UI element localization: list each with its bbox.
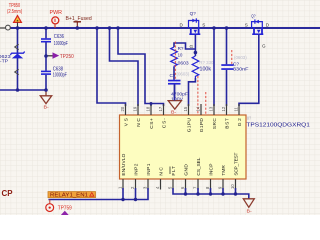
svg-text:INP1: INP1 — [146, 163, 152, 175]
svg-text:S: S — [245, 23, 248, 28]
svg-text:R? 330: R? 330 — [199, 60, 214, 65]
svg-text:C636: C636 — [54, 34, 64, 40]
svg-text:SRC: SRC — [212, 118, 218, 130]
svg-text:TP759: TP759 — [58, 206, 72, 212]
svg-text:(0603): (0603) — [234, 55, 247, 60]
svg-text:18: 18 — [146, 106, 151, 111]
svg-text:G: G — [262, 44, 266, 49]
svg-text:INP2: INP2 — [134, 163, 140, 175]
svg-text:N C: N C — [136, 118, 142, 127]
svg-text:VS: VS — [123, 118, 129, 126]
svg-text:100V: 100V — [171, 96, 184, 102]
svg-text:/-TP: /-TP — [0, 58, 8, 64]
svg-text:11: 11 — [234, 106, 239, 111]
svg-text:TP850: TP850 — [9, 3, 21, 9]
svg-text:CS_SEL: CS_SEL — [196, 157, 202, 175]
svg-text:B-: B- — [44, 105, 50, 110]
svg-text:CP: CP — [2, 189, 14, 198]
svg-text:19: 19 — [133, 106, 138, 111]
svg-text:PWR: PWR — [50, 10, 63, 16]
svg-text:TP250: TP250 — [60, 54, 74, 60]
svg-text:12: 12 — [221, 106, 226, 111]
svg-text:SCP_TEST: SCP_TEST — [234, 153, 240, 176]
svg-text:0603: 0603 — [178, 60, 189, 65]
svg-text:Q?: Q? — [251, 13, 256, 18]
svg-text:FLT: FLT — [171, 166, 177, 176]
svg-text:10000pF: 10000pF — [54, 41, 68, 47]
svg-text:B-: B- — [171, 110, 177, 115]
svg-text:15: 15 — [183, 106, 188, 111]
svg-text:RELAY1_EN1: RELAY1_EN1 — [50, 193, 88, 199]
svg-text:(0603): (0603) — [177, 71, 190, 76]
svg-text:(2.5mm): (2.5mm) — [7, 9, 22, 15]
svg-text:G1PU: G1PU — [186, 118, 192, 133]
svg-text:330nF: 330nF — [233, 66, 249, 72]
svg-text:B-: B- — [247, 208, 253, 213]
svg-text:N C: N C — [159, 167, 165, 176]
svg-text:G1PD: G1PD — [199, 118, 205, 133]
svg-text:TMR: TMR — [221, 165, 227, 176]
svg-text:10000pF: 10000pF — [53, 73, 67, 79]
svg-text:CS+: CS+ — [149, 118, 155, 129]
svg-text:CS-: CS- — [161, 118, 167, 128]
svg-text:TPS12100QDGXRQ1: TPS12100QDGXRQ1 — [246, 122, 310, 128]
svg-text:U?: U? — [247, 115, 252, 120]
svg-text:14: 14 — [196, 106, 201, 111]
svg-text:13: 13 — [209, 106, 214, 111]
svg-text:17: 17 — [158, 106, 163, 111]
svg-text:BST: BST — [224, 118, 230, 129]
svg-text:100k: 100k — [200, 66, 212, 72]
svg-text:GND: GND — [184, 164, 190, 176]
svg-text:Q?: Q? — [190, 11, 197, 16]
svg-text:EN/UVLO: EN/UVLO — [121, 153, 127, 175]
svg-text:10: 10 — [230, 184, 235, 189]
svg-text:10: 10 — [178, 53, 183, 58]
svg-text:C638: C638 — [53, 66, 63, 72]
svg-text:R?: R? — [178, 46, 184, 51]
svg-text:S: S — [202, 23, 205, 28]
svg-text:20: 20 — [120, 106, 125, 111]
svg-text:INCP: INCP — [209, 164, 215, 176]
